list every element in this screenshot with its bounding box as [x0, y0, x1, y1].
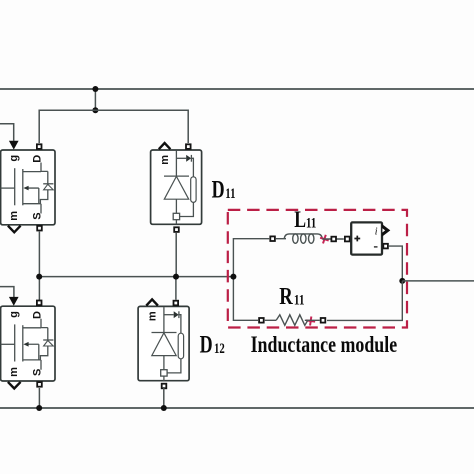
label L11: [294, 208, 316, 233]
node: mid bus at Q legs: [36, 274, 42, 280]
MOSFET Q11: [1, 141, 55, 233]
node: bottom bus at Q12: [36, 405, 42, 411]
port of L11 left: [270, 236, 275, 241]
diode module D11: [151, 143, 202, 232]
label R11: [279, 283, 304, 310]
wire: rail feeding Q11 drain and D11 cathode: [39, 110, 188, 143]
wire: D11 anode down to mid bus and D12: [175, 233, 177, 300]
svg-text:i: i: [375, 227, 378, 238]
port of R11 left: [259, 318, 264, 323]
svg-text:11: 11: [294, 291, 305, 308]
resistor R11 zigzag: [276, 315, 320, 326]
port between L11 and ammeter: [331, 237, 336, 242]
wire: bottom DC bus: [0, 407, 474, 409]
polarity mark of L11: [319, 233, 330, 244]
polarity mark of R11: [306, 316, 316, 326]
svg-text:D: D: [212, 176, 225, 204]
diode module D12: [138, 299, 189, 388]
svg-text:Inductance module: Inductance module: [251, 333, 398, 358]
wire: Q12 source to bottom bus: [38, 388, 40, 408]
label D12: [200, 331, 225, 359]
svg-text:L: L: [294, 208, 306, 233]
wire: gate input g12: [0, 287, 14, 297]
node: mid bus at diode leg: [173, 274, 179, 280]
wire: D12 anode to bottom bus: [163, 387, 165, 408]
wire: ammeter minus to output node: [389, 246, 403, 281]
label: Inductance module: [251, 333, 398, 358]
label D11: [212, 176, 236, 204]
port: ammeter minus: [383, 244, 388, 249]
wire: top DC bus: [0, 88, 474, 90]
inductor L11: [284, 234, 322, 243]
svg-text:D: D: [200, 331, 213, 359]
wire: port to inductor: [276, 238, 286, 240]
wire: link between top bus and gate rail: [94, 89, 96, 110]
wire: module left branch: [233, 239, 269, 321]
svg-text:11: 11: [225, 184, 235, 201]
node: junction on top bus: [92, 86, 98, 92]
port: ammeter input: [345, 237, 350, 242]
wire: R11 left port lead: [265, 319, 276, 321]
inductance module dashed boundary: [228, 210, 407, 328]
node: bottom bus at D12: [161, 405, 167, 411]
wire: module output line: [402, 280, 474, 282]
svg-text:R: R: [279, 283, 293, 310]
wire: mid bus to inductance module: [39, 276, 234, 278]
MOSFET Q12: [1, 297, 55, 389]
node: module input: [230, 274, 236, 280]
node: module output: [399, 278, 405, 284]
node: junction on rail: [92, 107, 98, 113]
wire: gate input g11: [0, 124, 14, 141]
wire: Q11 source to Q12 drain: [38, 232, 40, 300]
wire: inductor to ports: [322, 238, 344, 240]
current measurement block U1: [351, 222, 390, 254]
port of R11 right: [321, 318, 326, 323]
wire: module right branch down: [327, 281, 402, 321]
svg-text:12: 12: [214, 339, 225, 356]
svg-text:11: 11: [306, 214, 317, 231]
